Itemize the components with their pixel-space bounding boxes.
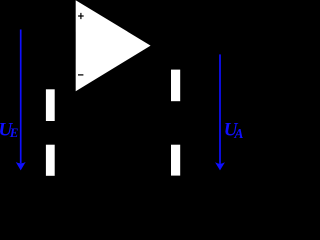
wire op-amp output to output node B [150,45,220,47]
label UA [224,119,244,141]
op-amp U1 non-inverting input marker + [78,13,84,19]
junction node A [49,21,53,25]
wire right divider tap feedback [62,122,176,124]
svg-text:A: A [234,126,244,141]
voltage arrow UE [16,30,26,171]
wire ground rail [21,179,220,181]
svg-text:E: E [9,125,19,140]
wire input node A to op-amp non-inverting input [21,22,76,24]
resistor R4 [171,145,180,176]
label UE [0,120,19,141]
op-amp U1 [76,0,151,91]
resistor R1 [46,89,55,121]
resistor R2 [46,145,55,176]
resistor R3 [171,70,180,102]
wire right divider branch down from output [175,46,177,181]
op-amp U1 inverting input marker - [78,74,83,76]
wire left divider tap to inverting input [50,68,75,133]
junction output node [174,44,178,48]
wire left divider branch down from node A [49,23,51,180]
voltage arrow UA [215,54,225,170]
